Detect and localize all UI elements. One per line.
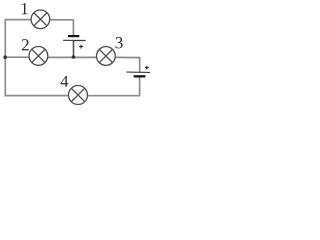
label 4 [61, 76, 69, 87]
lamp L4 [69, 86, 88, 105]
wire battery B1 top lead [72, 20, 74, 35]
battery B1 plus sign [79, 45, 83, 49]
junction left rail / middle rail [3, 55, 7, 59]
battery B2 thin plate (positive) [127, 71, 151, 73]
wire battery B2 top lead [139, 57, 141, 72]
battery B2 plus sign [145, 66, 149, 70]
label 2 [22, 39, 29, 50]
battery B1 thin plate (positive) [63, 39, 86, 41]
wire middle rail left segment [5, 56, 30, 58]
wire middle rail right segment [115, 56, 140, 58]
junction battery B1 lead / middle rail [72, 55, 76, 59]
wire battery B2 bottom lead [139, 78, 141, 96]
lamp L2 [29, 47, 48, 66]
label 1 [22, 3, 28, 14]
wire left rail [4, 20, 6, 96]
label 3 [116, 37, 123, 48]
wire battery B1 bottom lead [73, 41, 75, 58]
wire top rail right segment to battery corner [50, 19, 74, 21]
wire bottom rail left segment [5, 95, 69, 97]
wire middle rail centre segment [48, 56, 97, 58]
lamp L3 [97, 47, 116, 66]
wire top rail left segment [5, 19, 32, 21]
battery B2 thick plate (negative) [134, 75, 146, 77]
lamp L1 [31, 10, 50, 29]
wire bottom rail right segment [88, 95, 141, 97]
battery B1 thick plate (negative) [68, 35, 79, 37]
